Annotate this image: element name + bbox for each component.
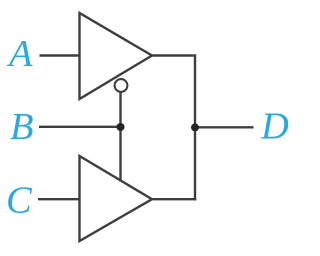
wire C input (38, 198, 79, 200)
buffer U2 (bottom tri-state buffer) (80, 156, 153, 241)
wire A input (40, 54, 80, 56)
wire D output (195, 126, 254, 128)
svg-text:C: C (6, 180, 33, 222)
junction dot at node D (191, 123, 199, 131)
buffer U1 (top tri-state buffer, active-low enable) (80, 13, 153, 99)
svg-text:D: D (260, 105, 289, 147)
wire U1 output to bus (151, 54, 194, 56)
wire B input (39, 126, 121, 128)
wire enable vertical (119, 92, 121, 181)
svg-text:A: A (6, 33, 33, 75)
wire right vertical bus (194, 54, 196, 200)
wire U2 output to bus (151, 198, 196, 200)
bubble (inverting enable of U1) (115, 79, 128, 92)
svg-text:B: B (10, 106, 34, 148)
junction dot on B wire (117, 123, 125, 131)
